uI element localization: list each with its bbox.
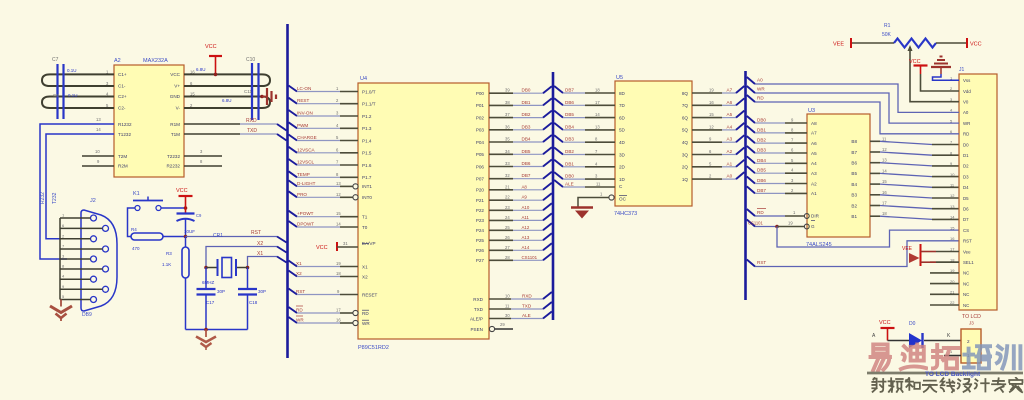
svg-text:NC: NC [963,303,969,308]
svg-text:3D: 3D [619,152,626,157]
svg-text:1.1K: 1.1K [162,262,171,267]
svg-text:D-LIGHT: D-LIGHT [297,181,316,186]
svg-text:A2: A2 [811,181,817,186]
ground arrow below DB9 [60,300,62,307]
svg-text:ALE: ALE [522,313,531,318]
svg-text:P1.7: P1.7 [362,175,372,180]
svg-text:CHARGE: CHARGE [297,135,317,140]
svg-text:T2M: T2M [118,154,127,159]
svg-text:DB5: DB5 [522,149,531,154]
svg-text:12VSCA: 12VSCA [297,147,316,152]
svg-text:A0: A0 [727,174,733,179]
svg-text:A10: A10 [522,205,530,210]
svg-text:Vdd: Vdd [963,89,971,94]
svg-text:8D: 8D [619,91,626,96]
svg-text:33: 33 [505,161,510,166]
wire R1 wiper to LCD V0 [910,47,959,102]
ground symbol right of C11 (sideways) [260,95,264,99]
svg-text:DB7: DB7 [565,88,574,93]
svg-text:DB7: DB7 [757,188,766,193]
svg-text:DB3: DB3 [522,124,531,129]
svg-text:D7: D7 [963,217,969,222]
svg-text:B1: B1 [851,214,857,219]
svg-text:P02: P02 [476,115,485,120]
svg-text:R1: R1 [884,23,891,29]
svg-text:P20: P20 [476,188,485,193]
svg-text:D4: D4 [963,185,969,190]
svg-text:P04: P04 [476,140,485,145]
svg-text:1D: 1D [619,177,626,182]
svg-text:10: 10 [505,294,510,299]
svg-text:A2: A2 [114,58,121,64]
svg-text:C7: C7 [52,57,59,63]
stub LCD pin 19 NC [930,272,959,274]
svg-text:DB4: DB4 [757,158,766,163]
svg-text:Vee: Vee [963,249,971,254]
wire ALE bus to 373 C pin [554,180,563,187]
svg-text:DB0: DB0 [757,118,766,123]
wire PRO to MCU INT0 [289,191,298,197]
svg-text:WR: WR [963,121,970,126]
svg-text:P1.3: P1.3 [362,126,372,131]
svg-text:DIR: DIR [811,214,820,219]
wire loops left of MAX232 with caps C7 C8 [42,74,114,86]
power VCC right of R1 [966,38,968,48]
svg-text:P07: P07 [476,177,485,182]
DB9 pin stubs [60,217,91,219]
svg-text:2: 2 [967,339,970,344]
wire DB1 bus to 373 2D [554,160,563,167]
svg-text:VCC: VCC [176,188,188,194]
svg-text:8Q: 8Q [682,91,689,96]
svg-text:B2: B2 [851,203,857,208]
svg-text:WR: WR [296,318,304,323]
svg-text:ALE: ALE [565,182,574,187]
svg-text:P21: P21 [476,198,485,203]
wire RST to bus [186,236,278,238]
svg-text:C9: C9 [196,213,202,218]
svg-text:RD: RD [296,308,303,313]
svg-text:DB6: DB6 [757,178,766,183]
svg-text:A3: A3 [727,137,733,142]
svg-text:D3: D3 [963,174,969,179]
svg-text:7D: 7D [619,103,626,108]
svg-text:A5: A5 [811,151,817,156]
wire PWM to MCU P1.3 [289,122,298,128]
svg-text:A1: A1 [727,161,733,166]
svg-text:P1.2: P1.2 [362,114,372,119]
wire TEMP to MCU P1.7 [289,171,298,177]
wire RST bus to LCD RST pin [747,260,755,267]
svg-text:D1: D1 [963,153,969,158]
wire DB3 bus to 373 4D [554,135,563,142]
svg-text:15: 15 [336,211,341,216]
svg-text:C2-: C2- [118,106,126,111]
svg-text:30P: 30P [217,289,225,294]
svg-text:23: 23 [505,205,510,210]
svg-text:T232: T232 [52,192,58,204]
wire X1 from crystal to bus [248,257,278,268]
svg-text:A7: A7 [811,131,817,136]
svg-text:U3: U3 [808,108,815,114]
wire MAX232 R1OUT to RXD net [184,123,240,125]
wire DB5 bus to 373 6D [554,111,563,118]
svg-text:A7: A7 [727,88,733,93]
svg-text:A1: A1 [811,191,817,196]
svg-text:R1232: R1232 [118,122,132,127]
watermark underline [867,372,1023,375]
wire DB5 bus to 245 A3 [747,166,755,173]
svg-text:+POWT: +POWT [297,211,314,216]
svg-text:18: 18 [595,88,600,93]
wire K1 left to R4 [128,208,136,237]
wire T1232 to DB9 pin3 [40,124,114,259]
svg-text:RESET: RESET [362,292,378,297]
svg-text:12: 12 [709,124,714,129]
wire MAX232 T1IN to TXD net [184,133,240,135]
svg-text:11: 11 [505,304,510,309]
wire X1 to MCU X1 [289,261,298,267]
svg-text:37: 37 [505,112,510,117]
svg-text:25: 25 [505,225,510,230]
connector J3 backlight [961,329,981,363]
svg-text:12: 12 [336,192,341,197]
svg-text:INT1: INT1 [362,184,372,189]
wire CS1101 staircase to LCD CS pin [777,227,959,248]
wire D-LIGHT to MCU INT1 [289,180,298,186]
svg-text:GND: GND [170,94,181,99]
svg-text:RST: RST [296,289,305,294]
wire DB6 bus to 245 A2 [747,177,755,184]
wire DB4 bus to 373 5D [554,123,563,130]
svg-text:P05: P05 [476,152,485,157]
svg-text:DB0: DB0 [565,174,574,179]
svg-text:TO LCD Backlight: TO LCD Backlight [925,371,981,378]
capacitor C18 30P [247,268,249,290]
svg-text:18: 18 [882,211,887,216]
svg-text:V-: V- [176,106,181,111]
wire R4 to reset node [163,236,186,238]
svg-text:CS1101: CS1101 [522,255,538,260]
svg-text:RD: RD [757,96,764,101]
wire REST to MCU P1.1 [289,98,298,104]
svg-text:15: 15 [190,92,195,97]
svg-text:A4: A4 [811,161,817,166]
svg-text:INV-ON: INV-ON [297,111,313,116]
svg-text:NC: NC [963,281,969,286]
svg-text:A5: A5 [727,112,733,117]
svg-text:13: 13 [595,124,600,129]
svg-text:P22: P22 [476,208,485,213]
svg-text:A12: A12 [522,225,530,230]
svg-text:VCC: VCC [316,245,328,251]
svg-text:PWM: PWM [297,123,308,128]
wire RD bus to 245 DIR [747,209,755,216]
svg-text:NC: NC [963,292,969,297]
svg-text:15: 15 [882,179,887,184]
svg-text:17: 17 [336,308,341,313]
svg-text:DB0: DB0 [522,88,531,93]
capacitor C17 30P [205,268,207,290]
svg-text:P24: P24 [476,228,485,233]
svg-text:X2: X2 [257,241,263,247]
svg-text:RXD: RXD [473,297,483,302]
svg-text:B5: B5 [851,171,857,176]
wire K1 right to VCC node [161,207,186,209]
svg-text:DB3: DB3 [757,148,766,153]
wire CS1101 bus to 245 G and LCD CS [747,220,755,227]
svg-text:A6: A6 [727,100,733,105]
svg-text:R2232: R2232 [166,164,180,169]
svg-text:D2: D2 [963,164,969,169]
connector J1 TO LCD [959,74,997,310]
svg-text:DB6: DB6 [522,161,531,166]
svg-text:V0: V0 [963,100,969,105]
svg-text:C10: C10 [246,57,255,63]
bus net 1 vertical [286,24,289,358]
junction reset node [184,235,188,239]
svg-text:5Q: 5Q [682,128,689,133]
svg-text:V+: V+ [174,84,180,89]
svg-text:R2M: R2M [118,164,128,169]
svg-text:DB4: DB4 [565,124,574,129]
svg-text:RD: RD [963,132,969,137]
wire CHARGE to MCU P1.4 [289,135,298,141]
svg-text:14: 14 [96,127,101,132]
svg-text:P1.4: P1.4 [362,138,372,143]
svg-text:D0: D0 [963,142,969,147]
stub LCD pin 22 NC [930,304,959,306]
svg-text:VCC: VCC [879,320,891,326]
svg-text:A9: A9 [522,195,528,200]
wire 12VSCL to MCU P1.6 [289,159,298,165]
capacitor C8 [56,87,58,119]
svg-text:39: 39 [505,88,510,93]
wire diode to J3 [924,340,961,342]
svg-text:P27: P27 [476,258,485,263]
bus net 3 vertical [744,71,747,300]
svg-text:RST: RST [963,239,972,244]
wire +POWT to MCU T1 [289,211,298,217]
svg-text:B8: B8 [851,139,857,144]
svg-text:R4: R4 [131,227,137,232]
wire RD to MCU RD [289,307,298,313]
wire DB6 bus to 373 7D [554,98,563,105]
svg-text:6Q: 6Q [682,115,689,120]
wire DB3 bus to 245 A5 [747,146,755,153]
svg-text:12VSCL: 12VSCL [297,160,315,165]
wire DB7 bus to 245 A1 [747,186,755,193]
stub LCD pin 21 NC [930,293,959,295]
svg-text:4D: 4D [619,140,626,145]
svg-text:DB1: DB1 [522,100,531,105]
svg-text:RST: RST [251,230,261,236]
svg-text:A4: A4 [727,124,733,129]
svg-text:ALE/P: ALE/P [470,316,483,321]
svg-text:24: 24 [505,215,510,220]
svg-text:B7: B7 [851,150,857,155]
svg-text:DB4: DB4 [522,137,531,142]
svg-text:10: 10 [950,172,955,177]
wire X2 from crystal to bus [206,247,277,268]
svg-text:6.8U: 6.8U [222,98,232,103]
svg-text:26: 26 [505,235,510,240]
capacitor C7 [56,64,58,97]
svg-text:P23: P23 [476,218,485,223]
svg-text:P89C51RD2: P89C51RD2 [358,345,389,351]
svg-text:A14: A14 [522,245,530,250]
svg-text:PRO: PRO [297,192,307,197]
svg-text:B3: B3 [851,193,857,198]
svg-text:11: 11 [882,136,887,141]
svg-text:DB1: DB1 [757,127,766,132]
svg-text:13: 13 [96,117,101,122]
junction at VCC pin16 [214,73,218,77]
svg-text:X1: X1 [296,261,302,266]
svg-text:A11: A11 [522,215,530,220]
svg-text:D5: D5 [963,196,969,201]
svg-text:35: 35 [505,137,510,142]
svg-text:Vss: Vss [963,78,971,83]
wire DB4 bus to 245 A4 [747,156,755,163]
svg-text:J1: J1 [959,67,965,73]
svg-text:A13: A13 [522,235,530,240]
svg-text:OC: OC [619,197,627,202]
svg-text:12: 12 [950,193,955,198]
svg-text:C1+: C1+ [118,72,127,77]
svg-text:32: 32 [505,173,510,178]
svg-text:TXD: TXD [247,128,257,134]
svg-text:38: 38 [505,100,510,105]
svg-text:X1: X1 [257,251,263,257]
svg-text:SEL1: SEL1 [963,260,974,265]
svg-text:DB2: DB2 [757,138,766,143]
IC U3 74ALS245 [807,114,870,237]
stub pins right bottom [184,155,222,157]
svg-text:RST: RST [757,260,766,265]
svg-text:DPOWT: DPOWT [297,222,314,227]
stub LCD pin 18 SEL1 [930,261,959,263]
wire DB0 bus to 245 A8 [747,116,755,123]
svg-text:A0: A0 [757,78,763,83]
svg-text:22: 22 [505,195,510,200]
svg-text:MAX232A: MAX232A [143,58,168,64]
wire 373 OC pin to ground [609,195,614,200]
svg-text:74HC373: 74HC373 [614,211,637,217]
svg-text:T0: T0 [362,225,368,230]
svg-text:CS: CS [963,228,969,233]
svg-text:C1-: C1- [118,84,126,89]
watermark slogan characters [872,378,886,392]
svg-text:X2: X2 [362,274,368,279]
svg-text:30: 30 [505,313,510,318]
svg-text:J2: J2 [90,198,96,204]
svg-text:0.1U: 0.1U [67,68,77,73]
wire A0 bus to LCD A0 [747,77,755,84]
svg-text:TO LCD: TO LCD [962,314,981,320]
svg-text:5D: 5D [619,128,626,133]
svg-text:50K: 50K [882,32,892,38]
svg-text:0.1U: 0.1U [68,93,78,98]
svg-text:D0: D0 [909,321,916,327]
svg-text:J3: J3 [969,321,974,326]
ground rail wire [186,329,248,331]
svg-text:7Q: 7Q [682,103,689,108]
svg-text:15: 15 [950,225,955,230]
svg-text:P26: P26 [476,248,485,253]
svg-text:DB2: DB2 [522,112,531,117]
resistor R3 [185,237,187,248]
svg-text:A3: A3 [811,171,817,176]
svg-text:34: 34 [505,149,510,154]
svg-text:DB9: DB9 [82,312,92,318]
svg-text:B6: B6 [851,161,857,166]
svg-text:19: 19 [788,221,793,226]
svg-text:15: 15 [709,112,714,117]
svg-text:P25: P25 [476,238,485,243]
svg-text:2D: 2D [619,165,626,170]
svg-text:C17: C17 [206,300,215,305]
svg-text:DB5: DB5 [565,112,574,117]
svg-text:4Q: 4Q [682,140,689,145]
wire 12VSCA to MCU P1.5 [289,147,298,153]
svg-text:6MHZ: 6MHZ [202,280,215,285]
svg-text:13: 13 [882,158,887,163]
svg-text:16: 16 [950,236,955,241]
svg-text:A8: A8 [811,121,817,126]
svg-text:16: 16 [882,190,887,195]
svg-text:VCC: VCC [170,72,180,77]
capacitor C10 [251,63,253,97]
svg-text:P1.1/T: P1.1/T [362,102,376,107]
wire WR to MCU WR [289,317,298,323]
IC U5 74HC373 [615,81,692,206]
svg-text:REST: REST [297,98,309,103]
svg-text:U5: U5 [616,75,623,81]
svg-text:16: 16 [190,69,195,74]
svg-text:B4: B4 [851,182,857,187]
svg-text:16: 16 [709,100,714,105]
svg-text:RD: RD [757,210,764,215]
svg-text:C2+: C2+ [118,94,127,99]
svg-text:A0: A0 [963,110,969,115]
wire DB1 bus to 245 A7 [747,126,755,133]
svg-text:INT0: INT0 [362,195,372,200]
svg-text:NC: NC [963,271,969,276]
svg-text:3Q: 3Q [682,152,689,157]
svg-text:11: 11 [596,182,601,187]
svg-text:21: 21 [505,184,510,189]
stub J3 pin 1 [944,355,961,357]
svg-text:10: 10 [95,149,100,154]
svg-text:17: 17 [882,201,887,206]
wire WR bus to LCD WR [747,86,755,93]
wire VCC to diode [888,340,910,342]
svg-text:P06: P06 [476,164,485,169]
svg-text:LC-ON: LC-ON [297,86,311,91]
bus net 2 vertical [552,72,555,320]
DB9 common wire [59,218,61,300]
svg-text:13: 13 [950,204,955,209]
watermark logo big characters [871,344,891,370]
svg-text:T1M: T1M [171,132,180,137]
svg-text:6D: 6D [619,115,626,120]
wire DB0 bus to 373 1D [554,172,563,179]
wire X2 to MCU X2 [289,271,298,277]
svg-text:RXD: RXD [246,118,257,124]
svg-text:P1.0/T: P1.0/T [362,89,376,94]
svg-text:P1.6: P1.6 [362,163,372,168]
